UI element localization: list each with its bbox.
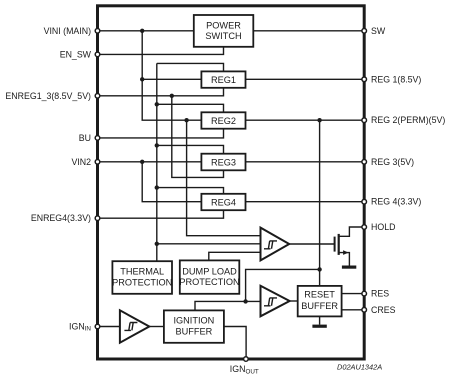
IC outer boundary box [98, 6, 365, 359]
wire REG1 input [142, 78, 201, 80]
wire DUMP LOAD top to comparator input [209, 252, 261, 260]
junction REG2 output tap [317, 118, 321, 122]
pin REG 2 [362, 118, 367, 123]
wire VIN2 branch to REG4 input [142, 162, 201, 202]
svg-text:IGNITION: IGNITION [173, 315, 214, 325]
pin BU [95, 136, 100, 141]
wire EN_SW to POWER SWITCH bottom [98, 47, 224, 55]
pin REG 3 [362, 160, 367, 165]
block POWER SWITCH [194, 15, 254, 47]
svg-text:VIN2: VIN2 [71, 157, 91, 167]
wire rail to REG1 top [157, 63, 224, 71]
svg-text:BUFFER: BUFFER [176, 327, 213, 337]
svg-text:REG3: REG3 [211, 158, 236, 168]
svg-text:SW: SW [371, 26, 386, 36]
svg-text:ENREG1_3(8.5V_5V): ENREG1_3(8.5V_5V) [5, 91, 91, 101]
svg-text:BUFFER: BUFFER [301, 301, 338, 311]
wire reset comparator output [290, 300, 298, 302]
comparator U2 (reset schmitt trigger) [261, 286, 290, 317]
block REG2 [201, 112, 245, 128]
pin REG 4 [362, 199, 367, 204]
wire rail to REG4 top [157, 188, 224, 194]
wire VINI bus vertical [142, 31, 201, 120]
svg-text:THERMAL: THERMAL [120, 266, 164, 276]
svg-text:REG 4(3.3V): REG 4(3.3V) [371, 197, 421, 207]
svg-text:D02AU1342A: D02AU1342A [337, 363, 382, 372]
wire branch to reset comparator input [246, 269, 320, 301]
pin RES [362, 291, 367, 296]
pin ENREG1_3 [95, 94, 100, 99]
svg-text:REG2: REG2 [211, 116, 236, 126]
svg-text:PROTECTION: PROTECTION [112, 277, 172, 287]
wire REG1 bottom to ENREG1_3 [98, 88, 224, 96]
wire RESET BUFFER to CRES [342, 309, 365, 311]
pin VINI (MAIN) [95, 29, 100, 34]
junction VIN2 branch [140, 160, 144, 164]
junction thermal rail REG4 [155, 185, 159, 189]
wire REG3 output [246, 161, 365, 163]
svg-text:REG 1(8.5V): REG 1(8.5V) [371, 74, 421, 84]
junction REG1 input [140, 77, 144, 81]
junction VINI bus [140, 29, 144, 33]
wire REG1 output [246, 78, 365, 80]
svg-text:VINI (MAIN): VINI (MAIN) [44, 26, 91, 36]
svg-text:RESET: RESET [304, 290, 335, 300]
svg-text:ENREG4(3.3V): ENREG4(3.3V) [31, 213, 91, 223]
wire IGNITION BUFFER output to IGN_OUT [224, 327, 246, 360]
junction thermal rail REG2 [155, 102, 159, 106]
wire rail to REG3 top [157, 145, 224, 153]
block DUMP LOAD PROTECTION [179, 260, 239, 293]
svg-text:DUMP LOAD: DUMP LOAD [182, 266, 237, 276]
wire VINI to POWER SWITCH [98, 30, 194, 32]
block REG1 [201, 71, 245, 87]
pin ENREG4 [95, 216, 100, 221]
svg-text:BU: BU [79, 133, 91, 143]
ground (RESET BUFFER) [312, 325, 326, 328]
junction reset comparator input [243, 299, 247, 303]
pin EN_SW [95, 52, 100, 57]
svg-text:REG 2(PERM)(5V): REG 2(PERM)(5V) [371, 115, 445, 125]
svg-text:PROTECTION: PROTECTION [179, 277, 239, 287]
svg-text:HOLD: HOLD [371, 222, 395, 232]
junction reset sense [317, 267, 321, 271]
wire RESET BUFFER to RES [342, 293, 365, 295]
junction thermal rail REG3 [155, 143, 159, 147]
wire REG2 bottom to BU [98, 129, 224, 138]
block IGNITION BUFFER [164, 310, 224, 342]
wire IGNITION BUFFER top to reset comparator [195, 301, 261, 310]
wire thermal tap to comparator center input [157, 243, 261, 245]
svg-text:EN_SW: EN_SW [60, 49, 92, 59]
block REG4 [201, 194, 245, 210]
svg-text:POWER: POWER [206, 20, 241, 30]
pin HOLD [362, 225, 367, 230]
wire rail to REG2 top [157, 104, 224, 112]
junction ENREG1_3 branch [170, 94, 174, 98]
svg-text:REG4: REG4 [211, 197, 236, 207]
block RESET BUFFER [298, 286, 342, 317]
block THERMAL PROTECTION [112, 261, 172, 294]
pin IGN_OUT [244, 357, 249, 362]
wire RESET BUFFER to ground [319, 316, 321, 324]
wire schmitt to IGNITION BUFFER [149, 326, 164, 328]
wire POWER SWITCH output to SW [253, 30, 364, 32]
transistor Q1 (HOLD MOSFET) [335, 227, 365, 266]
wire VIN2 to REG3 input [98, 161, 202, 163]
pin SW [362, 29, 367, 34]
wire REG2 output down to RESET BUFFER [319, 120, 321, 286]
block REG3 [201, 154, 245, 171]
pin VIN2 [95, 160, 100, 165]
wire ENREG1_3 branch to REG3 bottom [172, 96, 224, 178]
svg-text:RES: RES [371, 289, 389, 299]
svg-text:REG1: REG1 [211, 75, 236, 85]
comparator U1 (hold schmitt trigger) [261, 228, 290, 261]
wire REG2 tap down to comparator input [187, 120, 261, 236]
wire REG4 output [246, 201, 365, 203]
wire comparator output to MOSFET gate [289, 243, 334, 245]
svg-text:SWITCH: SWITCH [205, 31, 241, 41]
wire IGN_IN to schmitt buffer [98, 326, 120, 328]
junction thermal comparator tap [155, 242, 159, 246]
pin REG 1 [362, 77, 367, 82]
junction REG2 input tap [184, 118, 188, 122]
svg-text:REG 3(5V): REG 3(5V) [371, 157, 414, 167]
comparator U3 (ignition schmitt trigger) [120, 310, 149, 342]
wire REG2 output [246, 119, 365, 121]
wire thermal bus vertical [156, 63, 158, 261]
ground (MOSFET source) [342, 266, 356, 269]
pin CRES [362, 308, 367, 313]
pin IGN_IN [95, 324, 100, 329]
wire REG4 bottom to ENREG4 [98, 210, 224, 218]
svg-text:CRES: CRES [371, 305, 396, 315]
